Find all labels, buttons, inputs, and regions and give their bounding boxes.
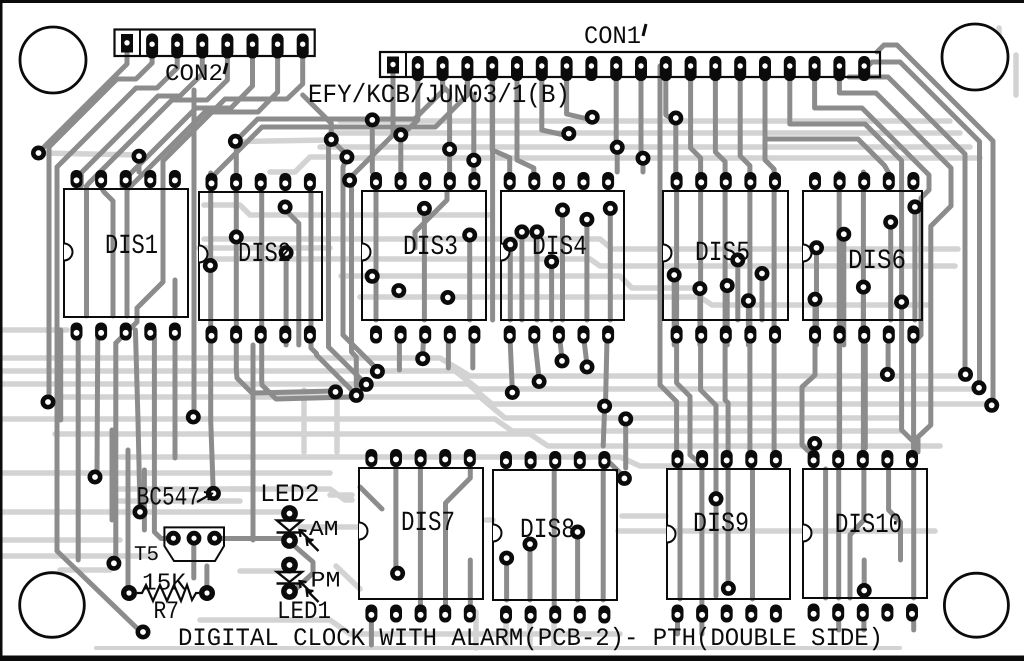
svg-text:DIS5: DIS5 bbox=[695, 238, 750, 269]
svg-text:DIS3: DIS3 bbox=[403, 232, 458, 263]
svg-text:AM: AM bbox=[309, 518, 339, 542]
svg-text:DIS8: DIS8 bbox=[520, 515, 575, 546]
svg-text:R7: R7 bbox=[154, 597, 180, 626]
svg-text:DIS10: DIS10 bbox=[835, 510, 902, 541]
svg-text:DIS7: DIS7 bbox=[401, 508, 455, 539]
svg-text:DIGITAL CLOCK WITH ALARM(PCB-2: DIGITAL CLOCK WITH ALARM(PCB-2)- PTH(DOU… bbox=[178, 624, 883, 653]
svg-text:DIS1: DIS1 bbox=[105, 231, 158, 262]
svg-text:DIS4: DIS4 bbox=[532, 232, 587, 263]
svg-text:DIS2: DIS2 bbox=[238, 239, 291, 270]
svg-text:PM: PM bbox=[311, 569, 341, 594]
svg-text:DIS9: DIS9 bbox=[693, 509, 749, 540]
svg-text:BC547: BC547 bbox=[137, 483, 200, 513]
svg-text:15K: 15K bbox=[142, 571, 186, 598]
svg-text:CON2: CON2 bbox=[165, 61, 223, 88]
svg-text:EFY/KCB/JUN03/1(B): EFY/KCB/JUN03/1(B) bbox=[308, 80, 570, 110]
svg-text:LED1: LED1 bbox=[277, 597, 331, 626]
svg-text:T5: T5 bbox=[134, 544, 159, 567]
svg-text:CON1: CON1 bbox=[584, 22, 641, 51]
svg-text:DIS6: DIS6 bbox=[848, 246, 906, 277]
svg-text:LED2: LED2 bbox=[260, 480, 320, 509]
